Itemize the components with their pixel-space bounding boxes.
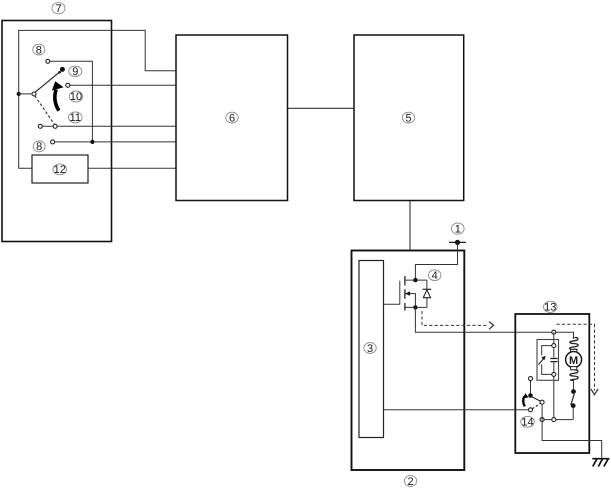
mosfet Q gate lead from block3 xyxy=(384,281,400,305)
svg-text:14: 14 xyxy=(521,417,533,429)
wire coil to breaker dot xyxy=(573,380,575,392)
mosfet body arrowhead xyxy=(405,291,410,295)
block 12 xyxy=(32,155,88,183)
switch blade dashed to contact 11 xyxy=(35,96,55,125)
svg-text:M: M xyxy=(569,355,578,367)
node 1 terminal bar xyxy=(449,241,466,243)
svg-text:12: 12 xyxy=(54,164,66,176)
bottom rail wire xyxy=(542,419,573,421)
motor top brush xyxy=(571,349,577,352)
bottom rail circle left xyxy=(540,418,544,422)
switch 14 pole circle xyxy=(540,400,544,404)
svg-text:7: 7 xyxy=(55,3,61,15)
terminal 10 xyxy=(66,83,70,87)
block 13 (motor assembly) xyxy=(515,314,589,453)
switch 14 top terminal xyxy=(529,377,533,381)
mosfet channel segment source xyxy=(404,303,406,311)
svg-text:13: 13 xyxy=(544,302,556,314)
breaker bottom dot xyxy=(571,403,576,408)
mosfet body lead with arrow xyxy=(406,294,416,308)
label 10 xyxy=(69,91,83,103)
svg-text:6: 6 xyxy=(229,112,235,124)
label 8 top xyxy=(33,44,45,56)
body diode cathode bar xyxy=(423,288,432,290)
label 14 xyxy=(521,416,535,428)
blade tip dot xyxy=(58,71,61,74)
drain junction dot xyxy=(413,278,417,282)
cap block node bottom circle xyxy=(552,372,556,376)
dashed feedback path with down arrow xyxy=(557,324,599,394)
label 6 xyxy=(226,112,238,124)
motor M circle xyxy=(566,352,582,368)
label 8 bottom xyxy=(33,141,45,153)
ground symbol xyxy=(592,459,609,467)
terminal 8 bottom xyxy=(51,140,55,144)
dashed signal arrow from mosfet xyxy=(422,311,494,329)
mosfet source lead xyxy=(405,306,427,308)
switch 14 blade dashed xyxy=(532,404,540,409)
label 11 xyxy=(69,112,83,124)
mosfet channel segment drain xyxy=(404,276,406,285)
breaker top dot xyxy=(571,389,576,394)
label 1 xyxy=(452,223,465,235)
breaker blade xyxy=(571,394,574,405)
node junction on loop wire xyxy=(17,92,21,96)
svg-text:1: 1 xyxy=(455,223,461,235)
switch 14 top terminal wire xyxy=(530,379,532,396)
body diode branch wires xyxy=(426,280,428,307)
cap block node top circle xyxy=(552,344,556,348)
label 13 xyxy=(544,301,558,313)
breaker branch diagonal with arrowhead xyxy=(539,356,546,365)
label 5 xyxy=(402,112,414,124)
block 3 xyxy=(359,261,384,438)
switch 14 rotation arrow xyxy=(523,393,529,406)
motor bottom coil xyxy=(570,370,578,380)
wire node A to motor branch xyxy=(554,332,574,339)
contact 9 dot xyxy=(60,67,65,72)
svg-text:9: 9 xyxy=(72,66,78,78)
svg-text:5: 5 xyxy=(405,112,411,124)
wire block5 down to block2 xyxy=(409,201,411,251)
common pole terminal xyxy=(32,92,36,96)
label 12 xyxy=(53,164,67,176)
label 4 xyxy=(429,270,441,282)
label 9 xyxy=(69,66,82,78)
mosfet channel segment body xyxy=(404,289,406,298)
wire terminal8top to junction xyxy=(48,61,93,142)
label 7 xyxy=(52,3,65,15)
svg-text:10: 10 xyxy=(70,91,82,103)
motor top coil xyxy=(570,338,579,350)
wire pole stub xyxy=(19,93,33,95)
body diode triangle xyxy=(423,290,430,298)
switch 14 blade solid xyxy=(532,397,541,402)
wire block6 to block5 xyxy=(288,107,355,109)
block 5 xyxy=(354,35,464,201)
bottom rail circle right xyxy=(552,418,556,422)
wire terminal11 to block6 xyxy=(40,125,176,127)
svg-text:8: 8 xyxy=(36,44,42,56)
wire breaker to bottom rail xyxy=(572,406,574,420)
mosfet drain lead xyxy=(405,279,427,281)
label 3 xyxy=(364,343,376,355)
capacitor block rectangle xyxy=(537,340,559,381)
node A terminal circle xyxy=(552,330,556,334)
node 1 dot xyxy=(455,240,460,245)
wire loop from block12 up and into block 6 xyxy=(19,30,177,168)
svg-text:4: 4 xyxy=(432,270,438,282)
block 2 (motor driver unit) xyxy=(352,251,465,471)
wire terminal8bottom to block6 xyxy=(53,141,177,143)
block 6 xyxy=(176,35,288,201)
svg-text:8: 8 xyxy=(36,141,42,153)
wire mosfet source to block13 node A xyxy=(415,307,553,332)
switch blade solid to contact 9 xyxy=(35,71,61,92)
wire block12 to block6 xyxy=(88,167,177,169)
switch 14 bottom terminal xyxy=(529,408,533,412)
wire to ground xyxy=(542,420,602,458)
svg-text:3: 3 xyxy=(367,343,373,355)
svg-text:2: 2 xyxy=(407,476,413,488)
wire terminal10 to block6 xyxy=(68,84,177,86)
source junction dot xyxy=(413,305,417,309)
rotation arrow xyxy=(52,81,64,110)
terminal 8 top xyxy=(46,59,50,63)
terminal 11 left xyxy=(38,124,42,128)
switch 14 moving contact dot xyxy=(528,393,533,398)
terminal 11 blade end xyxy=(53,124,57,128)
breaker branch wires xyxy=(542,346,554,375)
switch 14 pole wire down xyxy=(541,402,543,419)
capacitor block vertical wire xyxy=(553,332,555,419)
capacitor plate bottom xyxy=(550,361,557,363)
block 7 (switch unit outline) xyxy=(2,21,112,242)
svg-text:11: 11 xyxy=(70,112,81,124)
junction node 8-wires xyxy=(90,140,94,144)
label 2 xyxy=(404,476,416,488)
capacitor plate top xyxy=(550,358,557,360)
wire node1 down into block2 to mosfet drain xyxy=(415,242,457,280)
wire block3 to washer switch 14 xyxy=(384,409,531,411)
motor bottom brush xyxy=(571,367,577,370)
